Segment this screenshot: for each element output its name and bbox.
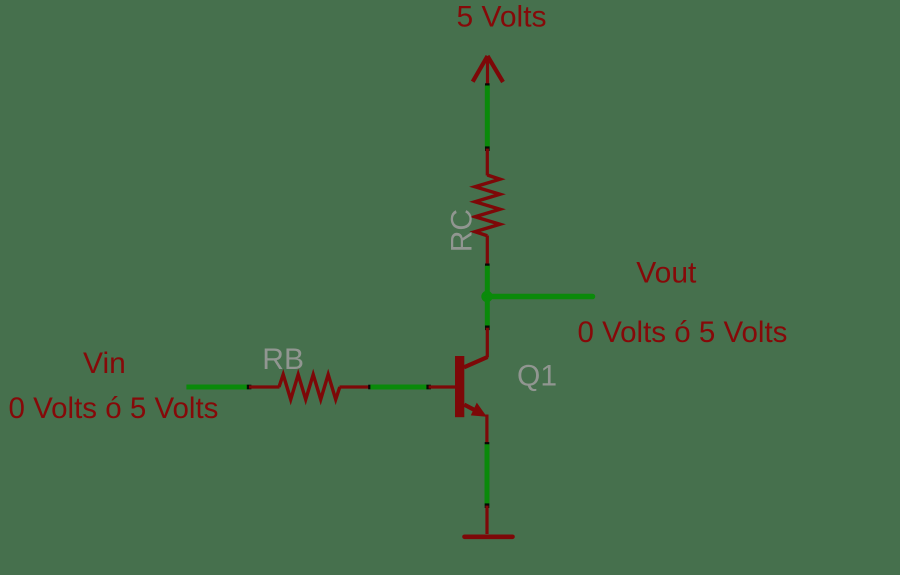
junction dot (emitter pin to wire) bbox=[485, 442, 490, 447]
wire (input green) bbox=[186, 385, 249, 390]
wire (RB left pin red) bbox=[249, 385, 280, 388]
svg-text:0 Volts ó 5 Volts: 0 Volts ó 5 Volts bbox=[9, 392, 219, 425]
svg-text:5 Volts: 5 Volts bbox=[457, 1, 547, 34]
wire (RC top pin red) bbox=[486, 149, 489, 176]
svg-text:Vout: Vout bbox=[636, 257, 697, 290]
wire (Vout horizontal green) bbox=[488, 294, 593, 300]
wire (emitter vertical green) bbox=[485, 444, 490, 505]
svg-text:Q1: Q1 bbox=[517, 360, 557, 393]
junction dot (wire to ground pin) bbox=[485, 503, 490, 508]
power supply VCC arrow bbox=[473, 56, 503, 86]
junction dot (input wire to RB pin) bbox=[247, 385, 252, 390]
junction dot (wire to base pin) bbox=[426, 385, 431, 390]
node (collector junction dot) bbox=[481, 291, 492, 302]
wire (collector pin red) bbox=[486, 328, 489, 358]
ground bbox=[465, 534, 513, 539]
wire (collector vertical green) bbox=[485, 266, 490, 328]
wire (RB right pin red) bbox=[340, 385, 371, 388]
resistor RB bbox=[279, 375, 340, 400]
svg-text:RC: RC bbox=[445, 209, 478, 252]
resistor RC bbox=[475, 175, 500, 236]
wire (base green) bbox=[370, 385, 428, 390]
wire (ground pin red) bbox=[485, 506, 488, 534]
wire (base pin red) bbox=[429, 385, 456, 388]
wire (vcc vertical green) bbox=[485, 86, 490, 149]
junction dot (wire to collector pin) bbox=[485, 326, 490, 331]
wire (RC bottom pin red) bbox=[486, 236, 489, 266]
svg-text:0 Volts ó 5 Volts: 0 Volts ó 5 Volts bbox=[578, 316, 788, 349]
junction dot (RB pin to wire) bbox=[368, 385, 373, 390]
svg-text:RB: RB bbox=[262, 343, 304, 376]
junction dot (arrow to wire) bbox=[485, 83, 490, 88]
junction dot (wire to RC pin) bbox=[485, 146, 490, 151]
svg-text:Vin: Vin bbox=[83, 347, 126, 380]
transistor Q1 bbox=[455, 356, 488, 444]
junction dot (RC pin to wire) bbox=[485, 264, 490, 269]
